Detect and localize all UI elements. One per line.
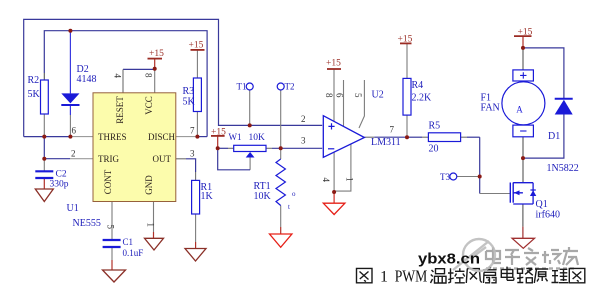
svg-text:LM311: LM311 bbox=[371, 137, 401, 148]
svg-text:10K: 10K bbox=[249, 133, 266, 143]
svg-text:GND: GND bbox=[144, 175, 154, 195]
svg-text:6: 6 bbox=[335, 93, 345, 98]
svg-text:5K: 5K bbox=[28, 89, 41, 100]
svg-text:8: 8 bbox=[324, 93, 334, 98]
svg-text:20: 20 bbox=[429, 144, 439, 155]
svg-text:+15: +15 bbox=[326, 59, 341, 69]
svg-text:T1: T1 bbox=[237, 82, 247, 92]
svg-text:NE555: NE555 bbox=[73, 218, 101, 229]
svg-text:1: 1 bbox=[345, 177, 355, 182]
svg-text:1: 1 bbox=[380, 268, 388, 285]
svg-text:OUT: OUT bbox=[153, 154, 172, 164]
svg-text:R4: R4 bbox=[412, 80, 424, 91]
svg-text:5K: 5K bbox=[183, 97, 196, 108]
svg-text:1K: 1K bbox=[201, 191, 214, 202]
svg-text:4: 4 bbox=[113, 74, 123, 79]
svg-text:+15: +15 bbox=[518, 27, 533, 37]
svg-text:A: A bbox=[516, 105, 523, 115]
svg-text:irf640: irf640 bbox=[536, 210, 560, 221]
svg-text:+15: +15 bbox=[211, 127, 226, 137]
svg-text:FAN: FAN bbox=[481, 103, 500, 114]
svg-text:0.1uF: 0.1uF bbox=[123, 248, 144, 258]
svg-text:PWM: PWM bbox=[395, 266, 428, 285]
svg-text:R5: R5 bbox=[429, 121, 441, 132]
svg-text:4: 4 bbox=[321, 178, 331, 183]
svg-text:T3: T3 bbox=[440, 172, 450, 182]
svg-text:C2: C2 bbox=[56, 170, 67, 180]
svg-text:330p: 330p bbox=[50, 180, 69, 190]
svg-text:5: 5 bbox=[353, 93, 363, 98]
svg-text:+15: +15 bbox=[398, 35, 413, 45]
svg-text:RESET: RESET bbox=[115, 96, 125, 124]
svg-text:ybx8.cn: ybx8.cn bbox=[418, 251, 480, 268]
svg-text:t: t bbox=[288, 203, 290, 211]
svg-text:1: 1 bbox=[146, 223, 156, 228]
svg-text:U1: U1 bbox=[67, 203, 79, 214]
svg-text:CONT: CONT bbox=[103, 169, 113, 194]
svg-text:W1: W1 bbox=[229, 132, 242, 142]
svg-text:2.2K: 2.2K bbox=[412, 93, 433, 104]
svg-text:+15: +15 bbox=[189, 41, 204, 51]
svg-text:TRIG: TRIG bbox=[98, 154, 119, 164]
svg-text:D1: D1 bbox=[548, 131, 560, 142]
svg-text:4148: 4148 bbox=[77, 74, 97, 85]
svg-text:R2: R2 bbox=[28, 75, 40, 86]
svg-text:DISCH: DISCH bbox=[148, 132, 176, 142]
svg-text:o: o bbox=[292, 190, 296, 198]
svg-text:3: 3 bbox=[301, 136, 306, 146]
svg-text:C1: C1 bbox=[123, 237, 134, 247]
svg-text:2: 2 bbox=[71, 149, 76, 159]
svg-text:10K: 10K bbox=[254, 191, 272, 202]
svg-text:7: 7 bbox=[390, 125, 395, 135]
svg-text:1N5822: 1N5822 bbox=[547, 163, 579, 174]
svg-text:8: 8 bbox=[144, 73, 154, 78]
svg-text:VCC: VCC bbox=[144, 96, 154, 115]
svg-text:6: 6 bbox=[72, 126, 77, 136]
svg-text:R3: R3 bbox=[183, 86, 195, 97]
svg-text:7: 7 bbox=[190, 126, 195, 136]
svg-text:3: 3 bbox=[190, 149, 195, 159]
svg-text:T2: T2 bbox=[285, 82, 295, 92]
svg-text:+15: +15 bbox=[149, 49, 164, 59]
svg-text:THRES: THRES bbox=[98, 132, 127, 142]
svg-text:5: 5 bbox=[106, 225, 116, 230]
svg-text:Q1: Q1 bbox=[536, 199, 548, 210]
svg-text:U2: U2 bbox=[372, 90, 384, 101]
svg-text:2: 2 bbox=[301, 114, 306, 124]
